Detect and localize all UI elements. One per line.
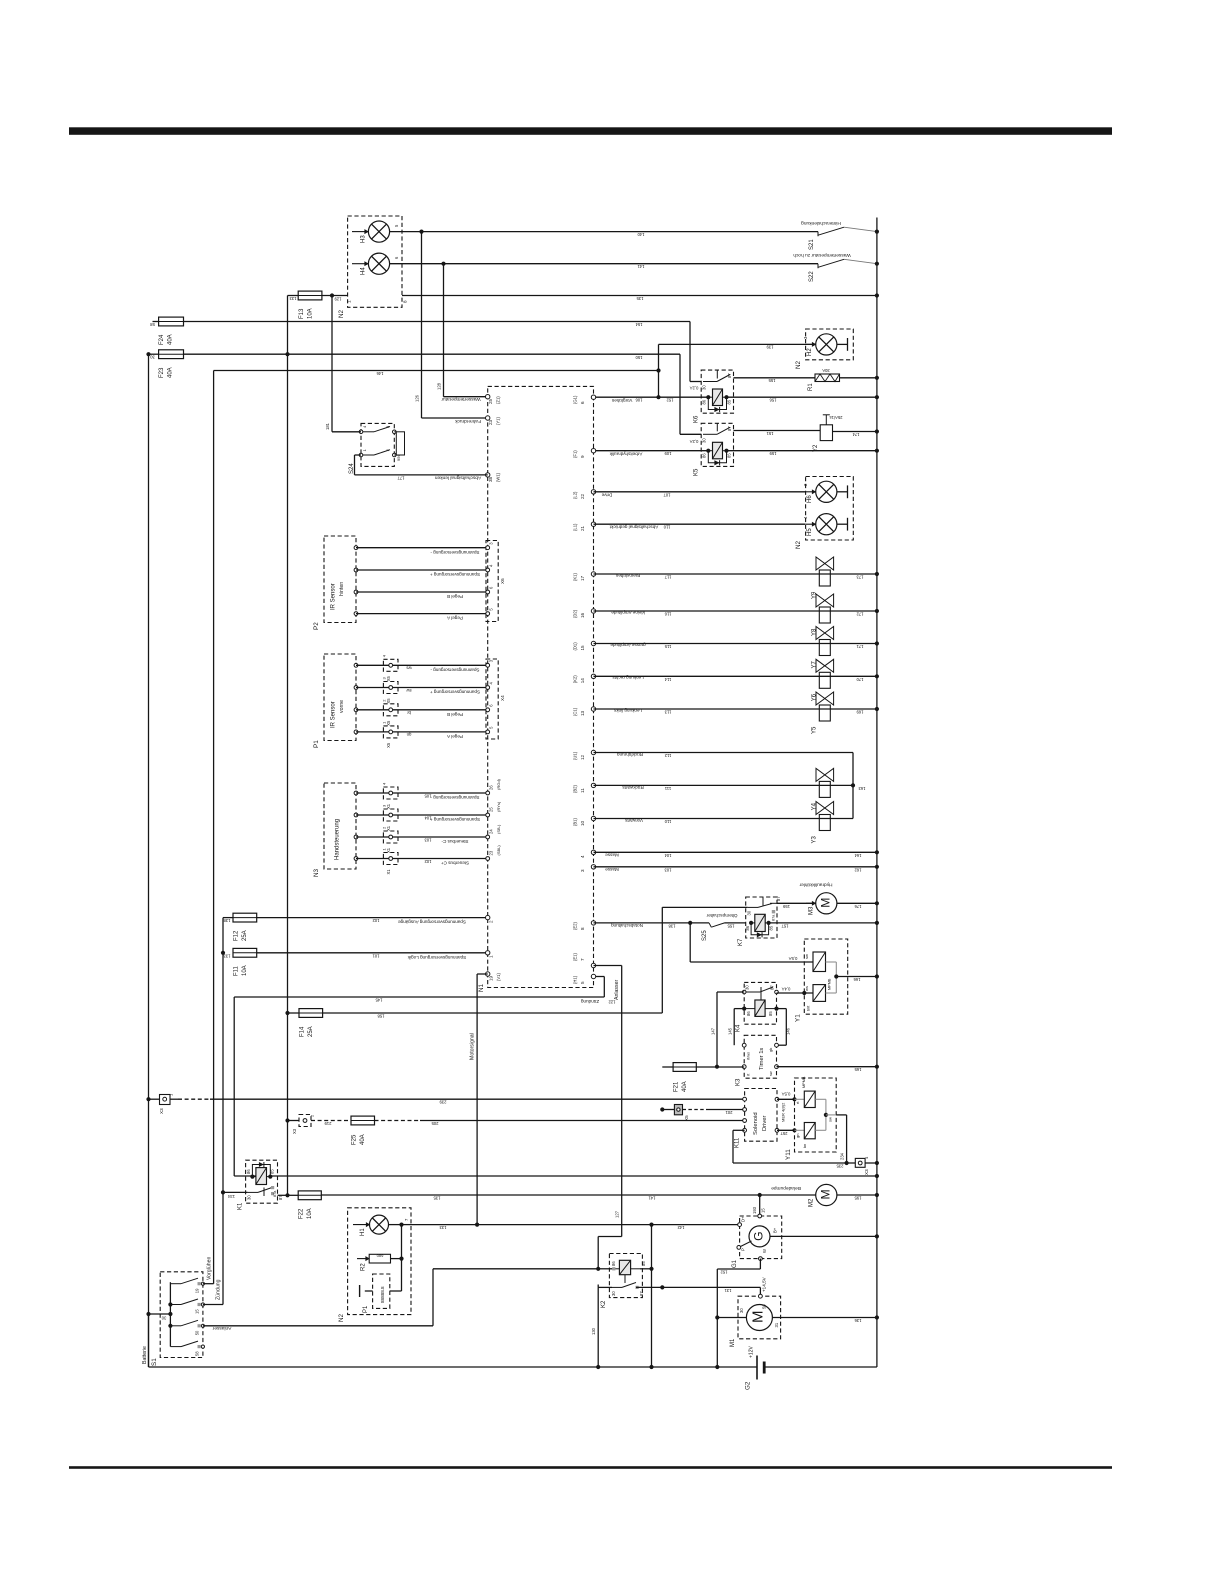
svg-text:X3: X3 [159, 1108, 164, 1114]
svg-text:(RGd): (RGd) [496, 778, 501, 790]
svg-text:86: 86 [246, 1169, 251, 1174]
IR sensor P2 box [324, 536, 356, 623]
svg-text:40A: 40A [682, 1081, 688, 1092]
wire 154 drop to relay K6 [689, 322, 691, 382]
valve Y5 [819, 705, 830, 721]
svg-text:2: 2 [489, 920, 494, 923]
svg-text:87a: 87a [273, 1190, 277, 1197]
Y11 lower coil [804, 1123, 815, 1139]
svg-text:150: 150 [635, 355, 643, 360]
svg-text:3: 3 [580, 869, 585, 872]
svg-text:103: 103 [424, 837, 432, 842]
svg-text:N2: N2 [338, 309, 345, 318]
svg-text:114: 114 [664, 677, 671, 682]
svg-text:G1: G1 [732, 1259, 738, 1268]
wire B+ G1 to bus [770, 1235, 877, 1237]
svg-text:(Z1): (Z1) [496, 396, 501, 404]
wire 147 K4 30 from F21 node [717, 991, 744, 993]
svg-text:(K2): (K2) [573, 675, 578, 684]
valve Y7 [819, 640, 830, 656]
wire 239 X3 to solenoid driver [170, 1098, 178, 1100]
wire 193 M2 node to generator [759, 1195, 761, 1216]
svg-text:87: 87 [727, 426, 732, 431]
svg-text:P: P [741, 1248, 746, 1251]
svg-text:ws: ws [406, 666, 411, 671]
svg-text:87: 87 [770, 985, 775, 990]
svg-text:107: 107 [663, 492, 671, 497]
svg-text:Spannungsversorgung -: Spannungsversorgung - [430, 795, 480, 800]
svg-text:H3: H3 [361, 235, 367, 243]
Handsteuerung N3 box [324, 783, 356, 869]
svg-text:Abschaltsignal gedrückt: Abschaltsignal gedrückt [609, 525, 658, 530]
svg-text:W: W [762, 1249, 767, 1253]
ECU pin 6 G1 Vorgluehen [591, 395, 595, 399]
svg-text:86: 86 [702, 453, 707, 458]
svg-text:15: 15 [761, 1208, 766, 1213]
svg-text:138: 138 [223, 918, 231, 923]
svg-text:K6: K6 [694, 415, 700, 423]
svg-text:P1: P1 [313, 740, 320, 748]
bottom ground rail [149, 1366, 758, 1368]
svg-text:5: 5 [580, 981, 585, 984]
lamp box N2 with H1 R2 P1 [348, 1208, 411, 1315]
ECU pin 22 L2 Drive [591, 490, 595, 494]
wire N3 pin via connector X1 pin 2 [354, 835, 358, 839]
fuse F21 40A [662, 1066, 673, 1068]
svg-text:50: 50 [195, 1330, 200, 1335]
net 30 right supply bus [876, 218, 878, 1368]
charge lamp H1 [353, 1224, 370, 1226]
svg-text:H6: H6 [807, 495, 813, 503]
svg-text:(C1): (C1) [573, 707, 578, 716]
svg-text:130: 130 [591, 1327, 596, 1335]
wire Vorgluehen rail horizontal [214, 370, 659, 372]
relay K2 starter relay [609, 1254, 642, 1298]
ECU connector X4 [486, 659, 498, 739]
wire node F23 bus vertical [285, 352, 289, 356]
ECU pin 8 E2 Notabschaltung [591, 921, 595, 925]
ECU pin 4 Masse [591, 850, 595, 854]
svg-text:Anlasser: Anlasser [212, 1325, 231, 1331]
wire N3 pin via connector X1 pin 4 [354, 791, 358, 795]
wire 234 Y11 to X3 pin 4 [836, 1114, 846, 1116]
ECU pin 12 U1 Rueckfuehrung [591, 750, 595, 754]
svg-text:166: 166 [853, 977, 861, 982]
svg-text:(F1): (F1) [573, 450, 578, 458]
wire K2 85 to D plus line [640, 1268, 652, 1270]
svg-text:0,2A: 0,2A [689, 386, 698, 391]
svg-text:Abschaltsignal lenken: Abschaltsignal lenken [434, 475, 481, 481]
Y11 output junction [825, 1099, 827, 1130]
svg-text:K7: K7 [738, 938, 744, 946]
svg-text:Y1: Y1 [795, 1014, 802, 1022]
svg-text:87: 87 [727, 373, 732, 378]
wire K6 87 to resistor R1 [734, 377, 816, 379]
svg-text:Vorglühen: Vorglühen [611, 398, 632, 403]
valve Y6 [819, 672, 830, 688]
svg-text:136: 136 [854, 1318, 862, 1323]
svg-text:146: 146 [786, 1027, 791, 1035]
svg-text:Zündung: Zündung [580, 999, 599, 1004]
ECU controller N1 box [488, 386, 594, 987]
svg-text:17: 17 [580, 575, 585, 581]
svg-text:40A: 40A [168, 367, 174, 378]
svg-text:K11: K11 [735, 1137, 741, 1148]
svg-text:172: 172 [856, 612, 864, 617]
svg-text:G2: G2 [745, 1381, 752, 1390]
svg-text:(SBL): (SBL) [496, 845, 501, 856]
svg-text:H2: H2 [807, 348, 813, 356]
svg-text:bn: bn [803, 1144, 807, 1148]
wire P1 pin via connector X5 pin 4 [354, 663, 358, 667]
wire N3 pin via connector X1 pin 1 [354, 857, 358, 861]
svg-text:Pegel B: Pegel B [447, 594, 463, 599]
svg-text:(K1): (K1) [573, 572, 578, 581]
S1 internal rail [169, 1282, 171, 1346]
svg-text:X1: X1 [386, 869, 391, 875]
switch S21 Hinterachslenkung [422, 231, 819, 233]
connector X3 pin 4 [847, 1162, 856, 1164]
wire 114 to valve Y6 [594, 675, 877, 677]
wire coil row to bus [270, 1175, 877, 1177]
svg-text:146: 146 [376, 371, 384, 376]
svg-text:170: 170 [856, 677, 864, 682]
svg-text:680: 680 [376, 1254, 383, 1259]
svg-text:MPMB: MPMB [828, 978, 832, 990]
svg-text:Fahrerdruck: Fahrerdruck [454, 418, 480, 424]
svg-text:X4: X4 [500, 695, 505, 701]
svg-text:26: 26 [489, 785, 494, 790]
ECU pin 9 F1 Arbeitshydraulik [591, 449, 595, 453]
svg-text:86: 86 [702, 399, 707, 404]
valve Y4 [819, 781, 830, 797]
wire 127 Anlasser from ECU pin 7 [594, 965, 622, 967]
svg-text:7: 7 [580, 958, 585, 961]
svg-text:Masse: Masse [605, 867, 619, 872]
wire battery feed left vertical [148, 354, 150, 1367]
svg-text:D+: D+ [741, 1216, 746, 1222]
svg-text:105: 105 [424, 793, 432, 798]
ECU pin 16 (D2) [591, 609, 595, 613]
svg-text:145: 145 [375, 997, 383, 1002]
svg-text:(U1): (U1) [573, 751, 578, 760]
wire pin8 branch to Y1 coil [689, 923, 691, 962]
svg-text:(L2): (L2) [573, 491, 578, 499]
svg-text:129: 129 [334, 297, 342, 302]
svg-text:F12: F12 [234, 930, 240, 941]
ECU pin 25 Z1 Wassertemperatur [486, 395, 490, 399]
svg-text:30: 30 [739, 1308, 744, 1313]
svg-text:R1: R1 [808, 383, 814, 391]
wire 177 S24 to ECU pin38 [355, 454, 362, 456]
wire 104 to bus [594, 851, 877, 853]
ECU pin 15 (D1) [591, 641, 595, 645]
IR sensor P1 box [324, 654, 356, 741]
svg-text:F24: F24 [159, 334, 165, 345]
svg-text:127: 127 [615, 1210, 620, 1218]
svg-text:133: 133 [223, 953, 231, 958]
svg-text:Spannungsversorgung Ausgänge: Spannungsversorgung Ausgänge [398, 920, 466, 925]
wire 110 to valve Y3 [594, 818, 854, 820]
resistor R2 680 [357, 1258, 369, 1260]
S1 contact 15 [170, 1304, 181, 1306]
svg-text:181: 181 [325, 422, 330, 430]
svg-text:101: 101 [372, 953, 380, 958]
svg-text:25A: 25A [242, 930, 248, 941]
valve Y3 [819, 815, 830, 831]
S1 contact 19 [170, 1283, 181, 1285]
motor M3 Hydraulikkuehler [806, 902, 816, 904]
svg-text:F21: F21 [674, 1081, 680, 1092]
ECU pin 1 [486, 951, 490, 955]
svg-text:86: 86 [611, 1261, 616, 1266]
svg-text:155: 155 [768, 378, 776, 383]
svg-text:sw: sw [828, 1117, 833, 1122]
wire 145 K4 86 to timer [734, 1008, 744, 1010]
wire K2 86 feed [598, 1268, 612, 1270]
svg-text:116: 116 [664, 611, 671, 616]
svg-text:30: 30 [702, 385, 707, 390]
lamp H5 [806, 523, 816, 525]
wire vertical H1 R2 P1 join [401, 1225, 403, 1291]
svg-text:Solenoid: Solenoid [753, 1112, 759, 1135]
ignition switch S1 [160, 1272, 203, 1358]
svg-text:Timer 1s: Timer 1s [759, 1048, 765, 1070]
wire Motorsignal vertical [477, 973, 488, 975]
ECU pin 23 Y1 Fahrerdruck [486, 416, 490, 420]
svg-text:13: 13 [580, 710, 585, 716]
svg-text:139: 139 [766, 345, 774, 350]
svg-text:19: 19 [489, 975, 494, 981]
wire 115 to valve Y7 [594, 643, 877, 645]
svg-text:86: 86 [746, 1011, 751, 1016]
svg-text:6: 6 [580, 401, 585, 404]
solenoid driver K11 box [745, 1089, 777, 1142]
svg-text:23: 23 [489, 850, 494, 855]
svg-text:Y8: Y8 [812, 628, 818, 636]
svg-text:G: G [752, 1231, 766, 1240]
svg-text:169: 169 [856, 710, 864, 715]
svg-text:N2: N2 [338, 1313, 345, 1322]
svg-text:MER 4(8)2: MER 4(8)2 [781, 1102, 786, 1122]
svg-text:Hinterachslenkung: Hinterachslenkung [801, 220, 841, 226]
svg-text:Y4: Y4 [812, 802, 818, 810]
svg-text:110: 110 [663, 525, 670, 530]
valve Y8 [819, 607, 830, 623]
svg-text:126: 126 [415, 394, 420, 402]
svg-text:Spannungsversorgung Logik: Spannungsversorgung Logik [407, 955, 466, 960]
svg-text:25A: 25A [308, 1026, 314, 1037]
svg-text:30: 30 [150, 355, 155, 360]
wire 106 ECU pin6 to K6 coil [594, 396, 709, 398]
svg-text:X3: X3 [292, 1128, 297, 1134]
svg-text:15: 15 [195, 1309, 200, 1314]
svg-text:193: 193 [752, 1206, 757, 1214]
svg-text:0,4A: 0,4A [781, 987, 790, 992]
svg-text:154: 154 [635, 322, 643, 327]
svg-text:163: 163 [858, 786, 866, 791]
svg-text:Spannungsversorgung +: Spannungsversorgung + [430, 572, 481, 577]
svg-text:S22: S22 [809, 271, 815, 282]
svg-text:219: 219 [324, 1121, 332, 1126]
svg-text:40A: 40A [360, 1134, 366, 1145]
svg-text:85: 85 [727, 399, 732, 404]
svg-text:156: 156 [769, 398, 777, 403]
svg-text:Anlasser: Anlasser [614, 980, 620, 1000]
svg-text:88888.8: 88888.8 [380, 1286, 385, 1303]
svg-text:(H1): (H1) [573, 975, 578, 984]
wire 110 to lamp H5 [594, 523, 806, 525]
svg-text:85: 85 [270, 1169, 275, 1174]
svg-text:IR Sensor: IR Sensor [331, 701, 337, 728]
svg-text:X5: X5 [386, 742, 391, 748]
wire 30 bus row to K1 coil and bus [234, 1175, 256, 1177]
svg-text:Wassertemperatur zu hoch: Wassertemperatur zu hoch [793, 252, 851, 258]
svg-text:X5: X5 [386, 720, 391, 726]
svg-text:111: 111 [664, 786, 671, 791]
svg-text:117: 117 [664, 574, 671, 579]
ECU pin 2 [486, 915, 490, 919]
svg-text:157: 157 [781, 923, 789, 928]
svg-text:40A: 40A [168, 334, 174, 345]
svg-text:257: 257 [780, 1131, 788, 1136]
svg-text:110: 110 [664, 819, 671, 824]
svg-text:S25: S25 [702, 930, 708, 941]
lamp box N2 with H3 H4 [348, 216, 402, 307]
svg-text:Motorsignal: Motorsignal [470, 1033, 476, 1060]
svg-text:11: 11 [580, 788, 585, 793]
svg-text:235: 235 [836, 1163, 844, 1168]
ECU pin 38 W1 Abschaltsignal [486, 473, 490, 477]
ECU pin 21 L1 Abschaltsignal gedrueckt [591, 522, 595, 526]
wire N3 pin via connector X1 pin 3 [354, 813, 358, 817]
svg-text:0,2A: 0,2A [689, 439, 698, 444]
svg-text:158: 158 [377, 1013, 385, 1018]
switch S22 Wassertemperatur [444, 263, 819, 265]
svg-text:X1: X1 [386, 825, 391, 831]
svg-text:30: 30 [161, 1315, 166, 1320]
wire P2 pin to ECU connector X6 pin 3 [354, 590, 358, 594]
svg-text:Y7: Y7 [812, 660, 818, 668]
svg-text:0,5A: 0,5A [781, 1092, 790, 1097]
wire 128 H4 to ECU pin 25 [441, 262, 445, 266]
wire 138 from pin 8 [594, 922, 691, 924]
wire 107 to lamp H6 [594, 491, 806, 493]
svg-text:Batterie: Batterie [142, 1346, 148, 1364]
lamp box N2 with H6 H5 [806, 477, 854, 541]
svg-text:85: 85 [768, 1011, 773, 1016]
svg-text:86: 86 [745, 925, 750, 930]
wire W +14,5V to M1 30 [759, 1259, 761, 1269]
wire K6 coil to bus [727, 396, 877, 398]
svg-text:141: 141 [648, 1195, 656, 1200]
svg-text:25: 25 [489, 807, 494, 812]
ECU pin 13 (C1) [591, 707, 595, 711]
lamp H4 [352, 263, 368, 265]
svg-text:1: 1 [489, 955, 494, 958]
wire P2 pin to ECU connector X6 pin 2 [354, 568, 358, 572]
wire P1 pin via connector X5 pin 3 [354, 686, 358, 690]
svg-text:Spannungsversorgung +: Spannungsversorgung + [430, 817, 481, 822]
svg-text:85: 85 [769, 925, 774, 930]
svg-text:Pegel A: Pegel A [446, 616, 463, 621]
svg-text:176: 176 [854, 904, 862, 909]
relay K1 [246, 1160, 278, 1203]
svg-text:br: br [407, 710, 411, 715]
svg-text:(D1): (D1) [573, 642, 578, 651]
wire 113 to valve Y5 [594, 708, 877, 710]
wire 146 K4 85 to timer [777, 1008, 787, 1010]
svg-text:177: 177 [397, 475, 405, 480]
svg-text:102: 102 [424, 859, 432, 864]
wire P1 pin via connector X5 pin 1 [354, 730, 358, 734]
svg-text:85: 85 [727, 453, 732, 458]
wire P2 pin to ECU connector X6 pin 4 [354, 612, 358, 616]
svg-text:(SB-): (SB-) [496, 824, 501, 834]
svg-text:Wassertemperatur: Wassertemperatur [441, 396, 481, 402]
svg-text:147: 147 [711, 1027, 716, 1035]
svg-text:38: 38 [488, 476, 493, 482]
svg-text:(RYs): (RYs) [496, 801, 501, 812]
svg-text:102: 102 [372, 918, 380, 923]
svg-text:K4: K4 [736, 1024, 742, 1032]
svg-text:19: 19 [195, 1288, 200, 1293]
svg-text:M: M [819, 1189, 833, 1199]
svg-text:F25: F25 [352, 1134, 358, 1145]
svg-text:140: 140 [637, 232, 645, 237]
svg-text:58: 58 [150, 322, 155, 327]
svg-text:Spannungsversorgung -: Spannungsversorgung - [430, 667, 480, 672]
svg-text:30: 30 [247, 1195, 252, 1200]
timer relay K3 Timer 1s [744, 1035, 776, 1078]
wire K5 87 to valve Y2 [734, 430, 821, 432]
svg-text:Y6: Y6 [812, 693, 818, 701]
svg-text:159: 159 [769, 451, 777, 456]
wire K11 low side [733, 1129, 745, 1131]
svg-text:(Y1): (Y1) [496, 416, 501, 425]
resistor R1 30A [815, 374, 840, 382]
svg-text:gb: gb [769, 1048, 773, 1052]
svg-text:K1: K1 [238, 1202, 244, 1210]
wire Vorgluehen S1 19 up [203, 1283, 214, 1285]
wire 165 timer to bus [777, 1066, 877, 1068]
svg-text:Vorglühen: Vorglühen [207, 1257, 213, 1280]
svg-text:P2: P2 [313, 622, 320, 630]
svg-text:30: 30 [745, 985, 750, 990]
svg-text:106: 106 [635, 398, 643, 403]
svg-text:+12V: +12V [749, 1346, 755, 1358]
S1 contact 50 [170, 1325, 181, 1327]
svg-text:0,5A: 0,5A [788, 956, 797, 961]
svg-text:165: 165 [854, 1067, 862, 1072]
wire 103 to bus [594, 866, 877, 868]
svg-text:X5: X5 [386, 698, 391, 704]
svg-text:(W1): (W1) [496, 472, 501, 482]
svg-text:159: 159 [782, 904, 790, 909]
svg-text:30A: 30A [822, 368, 830, 373]
svg-text:30: 30 [702, 438, 707, 443]
wire 109 ECU pin9 to K5 coil [594, 450, 709, 452]
fuse F24 40A [153, 321, 159, 323]
svg-text:Arbeitshydraulik: Arbeitshydraulik [609, 451, 642, 456]
Y1 upper coil [813, 952, 826, 972]
svg-text:138: 138 [668, 923, 676, 928]
svg-text:131: 131 [724, 1288, 732, 1293]
svg-text:164: 164 [854, 853, 862, 858]
svg-text:(G1): (G1) [573, 395, 578, 404]
connector X3 pin 1 [146, 1097, 150, 1101]
svg-text:M1: M1 [730, 1338, 736, 1347]
